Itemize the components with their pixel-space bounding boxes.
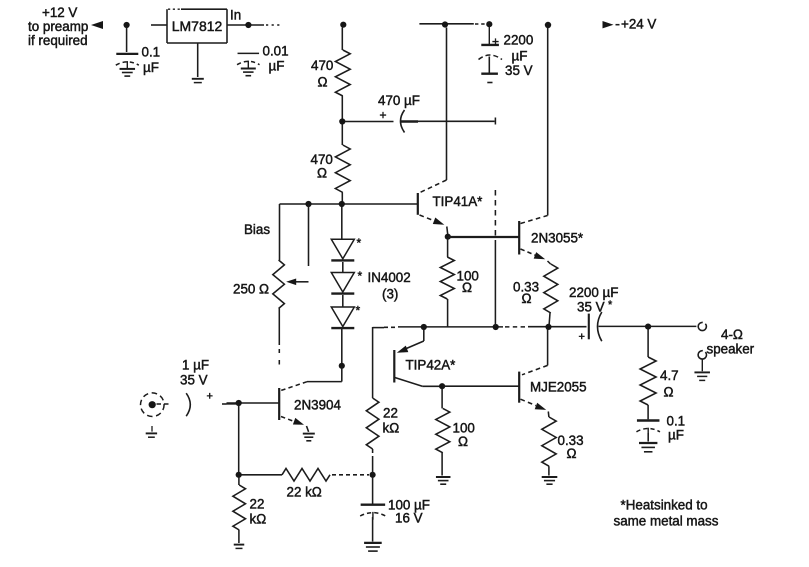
svg-text:+24 V: +24 V [621,17,656,32]
svg-text:+12 V: +12 V [42,5,77,20]
label +24 V [621,17,656,32]
ground below R7 [542,477,558,484]
transistor Q1 2N3904 body [278,388,280,420]
node I (bias/diodes top) [339,201,345,207]
svg-text:Ω: Ω [664,385,674,400]
node P (rail/MJE collector/0.33) [545,324,551,330]
svg-text:Bias: Bias [244,222,270,237]
wire bootstrap column [494,190,496,327]
svg-text:2200: 2200 [504,33,534,48]
wire C7 to ground [647,433,649,442]
svg-text:In: In [230,8,241,23]
resistor R7 0.33 [542,412,556,476]
svg-text:*: * [357,236,362,250]
wire Q2 emitter [420,215,445,225]
wire Q3 base (thick) [448,236,519,238]
resistor R2 470 [335,145,350,193]
wire Q3 emitter [521,249,546,259]
wire Q1 base [227,402,280,404]
node Q (rail/R8 4.7) [645,324,651,330]
ground below speaker terminal [694,359,710,380]
svg-text:+: + [492,35,499,49]
wire R2 top lead [341,125,343,146]
label Q4 TIP42A* [406,358,456,373]
svg-text:+: + [207,391,213,403]
wire pot bottom lead [278,309,280,365]
wire bias rail [280,203,418,205]
wire diode chain top lead [341,207,343,239]
svg-text:LM7812: LM7812 [172,18,223,34]
svg-text:+: + [380,108,387,122]
svg-text:35 V: 35 V [505,63,533,78]
pin label In [230,8,241,23]
svg-text:2N3055*: 2N3055* [531,231,583,246]
wire rail to output terminal [648,325,696,327]
label LM7812 [172,18,223,34]
wire U1 input pin [151,24,167,26]
svg-text:to preamp: to preamp [28,19,88,34]
svg-text:470: 470 [311,58,333,73]
svg-text:0.1: 0.1 [142,45,161,60]
label plus C8 [492,35,499,49]
label R5 22 kohm [383,406,400,436]
wire node M to C5 [372,477,374,504]
label C6 2200uF 35V [569,285,618,315]
wire C5 to ground [372,517,374,542]
label C4 plus [207,391,213,403]
label Q3 2N3055* [531,231,583,246]
wire node K down [238,406,240,475]
wire D1-D2 [342,262,344,273]
resistor R10 22k (horizontal) [282,469,330,482]
label Q2 TIP41A* [433,194,483,209]
diode D1 1N4002 [331,239,354,260]
wire output rail corner to R5 [372,327,374,398]
svg-text:Ω: Ω [522,291,532,306]
svg-text:2N3904: 2N3904 [294,398,341,413]
label R8 4.7 ohm [660,368,679,400]
svg-text:MJE2055: MJE2055 [530,380,587,395]
svg-text:35 V: 35 V [577,300,605,315]
svg-text:2200 µF: 2200 µF [569,285,618,300]
svg-text:22: 22 [250,497,265,512]
label C7 0.1 uF [667,414,686,443]
wire Q3 collector up [547,28,549,216]
wire Q5 collector [522,329,548,375]
capacitor C2 0.01uF [237,53,259,68]
svg-text:µF: µF [512,48,528,63]
transistor Q3 2N3055 body [518,221,520,255]
label R6 100 ohm [453,421,475,450]
node M (R5/C5 node) [370,472,376,478]
wire rail right of C6 [599,325,649,327]
svg-text:470 µF: 470 µF [378,93,420,108]
resistor R5 22k [366,398,379,449]
label R2 470 ohm [311,152,333,181]
wire Q2 emitter to node R [447,227,448,236]
wire Q1 collector dashes [281,382,307,391]
resistor R1 470 [335,50,350,96]
svg-text:Ω: Ω [458,434,468,449]
label Bias [244,222,270,237]
wire node S to Q5 base [442,385,519,387]
label R7 0.33 ohm [558,433,584,461]
transistor Q2 TIP41A body [417,193,419,215]
resistor R4 0.33 [544,261,558,326]
ground below C5 [364,543,382,551]
wire R5 to node M [372,449,374,475]
resistor R3 100 [440,239,454,327]
capacitor C6 2200uF output [589,312,602,341]
label Q5 MJE2055 [530,380,587,395]
transistor Q4 TIP42A body [393,350,395,383]
note: +12 V to preamp if required [28,5,88,48]
wire Q4 collector [395,378,442,387]
transistor Q5 MJE2055 body [518,372,520,403]
terminal output [697,321,709,333]
arrow to preamp [91,21,103,29]
wire node J to Q1 collector [307,366,342,382]
svg-text:35 V: 35 V [180,373,208,388]
svg-text:250 Ω: 250 Ω [233,282,269,297]
capacitor C4 1uF [186,393,190,416]
label C1 0.1 uF [142,45,161,76]
svg-text:same metal mass: same metal mass [614,514,719,529]
node B (regulator output) [245,22,251,28]
capacitor C7 0.1uF [636,421,660,436]
wire pot wiper [286,204,308,285]
node O (rail/bootstrap bottom) [493,324,499,330]
connector J1 RCA input [141,393,165,417]
resistor R8 4.7 [640,330,656,420]
label C2 0.01 uF [263,44,289,74]
node S (driver2 node) [439,383,445,389]
svg-text:TIP42A*: TIP42A* [406,358,456,373]
ground below R6 [436,477,451,484]
potentiometer P1 250 [273,260,285,309]
asterisk D1 [357,236,362,250]
wire Q1 emitter to ground [307,426,309,432]
label P1 250 ohm [233,282,269,297]
ground below C7 [639,443,657,452]
wire jack center dash [157,403,170,405]
label C5 100uF 16V [388,498,430,526]
node K (input node) [236,400,242,406]
node A (LM7812 input junction) [124,22,130,28]
label R1 470 ohm [311,58,333,90]
node C (R1 top) [340,22,346,28]
svg-text:speaker: speaker [707,342,755,357]
ground below jack [146,426,157,437]
wire R2 bottom lead [341,193,343,205]
diode D3 1N4002 [331,307,354,328]
label C3 470 uF and plus [378,93,420,122]
svg-text:kΩ: kΩ [250,512,267,527]
label 4-ohm speaker [707,327,755,357]
svg-text:*: * [356,304,361,318]
svg-text:TIP41A*: TIP41A* [433,194,483,209]
node N (rail/TIP42A emitter) [421,324,427,330]
ground below R9 [234,545,245,549]
label C8 2200 uF 35 V [504,33,534,78]
wire C3 to bootstrap column [418,120,495,122]
wire Q2 collector lead [420,180,447,193]
asterisk D3 [356,304,361,318]
node J (bias bottom) [339,363,345,369]
asterisk D2 [358,269,363,283]
svg-text:Ω: Ω [318,75,328,90]
wire output rail left [373,326,503,329]
svg-text:(3): (3) [382,287,398,302]
node G (bootstrap junction) [339,118,345,124]
svg-text:µF: µF [143,60,159,75]
capacitor C3 470uF [400,110,418,133]
node R (driver node) [445,234,451,240]
node L (feedback node) [236,472,242,478]
wire node G to C3 [345,121,394,123]
wire node A down to C1 [126,27,128,52]
wire Q4 emitter from node N [397,329,424,353]
label C4 1uF 35V [180,358,209,388]
svg-text:+: + [579,331,585,343]
wire diode chain bottom [341,329,343,367]
label R9 22 kohm [250,497,267,527]
label R10 22 kohm [287,485,322,500]
svg-text:Ω: Ω [462,280,472,295]
svg-text:22: 22 [383,406,398,421]
capacitor C1 0.1uF [116,54,139,69]
wire R1 bottom lead [341,96,343,122]
wire R1 top lead [341,28,343,51]
wire dashes right of node B [266,24,280,26]
svg-text:4.7: 4.7 [660,368,679,383]
resistor R9 22k (to ground) [233,477,246,543]
wire U1 output [227,24,264,26]
ground below Q1 [303,434,315,441]
svg-text:kΩ: kΩ [383,421,400,436]
ground below U1 [192,79,204,83]
wire bias left down to pot [279,204,281,260]
svg-text:Ω: Ω [317,166,327,181]
wire top rail segment [419,23,473,25]
label R3 100 ohm [457,269,479,296]
svg-text:0.1: 0.1 [667,414,686,429]
wire node L to R10 [242,474,283,476]
wire bootstrap tick [494,118,496,125]
wire Q2 collector from node D [446,28,448,181]
label Q1 2N3904 [294,398,341,413]
wire Q1 emitter [281,417,304,425]
arrow +24 V [603,21,620,28]
svg-text:*: * [608,299,613,311]
ground below C2 [241,69,256,76]
wire U1 ground pin [197,43,199,77]
svg-text:4-Ω: 4-Ω [721,327,743,342]
svg-text:16 V: 16 V [395,511,423,526]
node H (bias/pot top) [305,201,311,207]
wire rail dashes mid [505,326,528,328]
svg-text:0.01: 0.01 [263,44,289,59]
label R4 0.33 ohm [513,280,539,307]
label C6 plus [579,331,585,343]
wire rail to C6 [528,326,587,328]
svg-text:22 kΩ: 22 kΩ [287,485,322,500]
regulator U1 LM7812 box [167,9,227,43]
wire Q5 emitter [521,399,547,410]
svg-text:*: * [358,269,363,283]
svg-text:IN4002: IN4002 [368,270,411,285]
note: heatsink [614,498,719,529]
svg-text:if required: if required [28,33,88,48]
wire rail dashes [475,23,488,25]
terminal speaker return [696,349,708,361]
wire Q3 collector lead [521,216,548,224]
node E (rail / C8 2200uF) [486,21,492,27]
resistor R6 100 [436,388,450,476]
diode D2 1N4002 [331,273,354,294]
svg-text:Ω: Ω [567,446,577,461]
capacitor C5 100uF [360,505,386,520]
node D (rail / TIP41A collector) [442,21,448,27]
wire D2-D3 [342,295,344,307]
svg-text:µF: µF [668,428,684,443]
svg-text:µF: µF [269,59,285,74]
svg-text:1 µF: 1 µF [182,358,209,373]
wire C4 to node K [222,403,239,405]
node F (rail / 2N3055 collector) [545,22,551,28]
capacitor C8 2200uF 35V [479,27,503,83]
wire R10 dashes to node M [332,474,369,476]
label 1N4002 (3) [368,270,411,302]
ground below C1 [120,69,136,76]
svg-text:*Heatsinked to: *Heatsinked to [621,498,708,513]
